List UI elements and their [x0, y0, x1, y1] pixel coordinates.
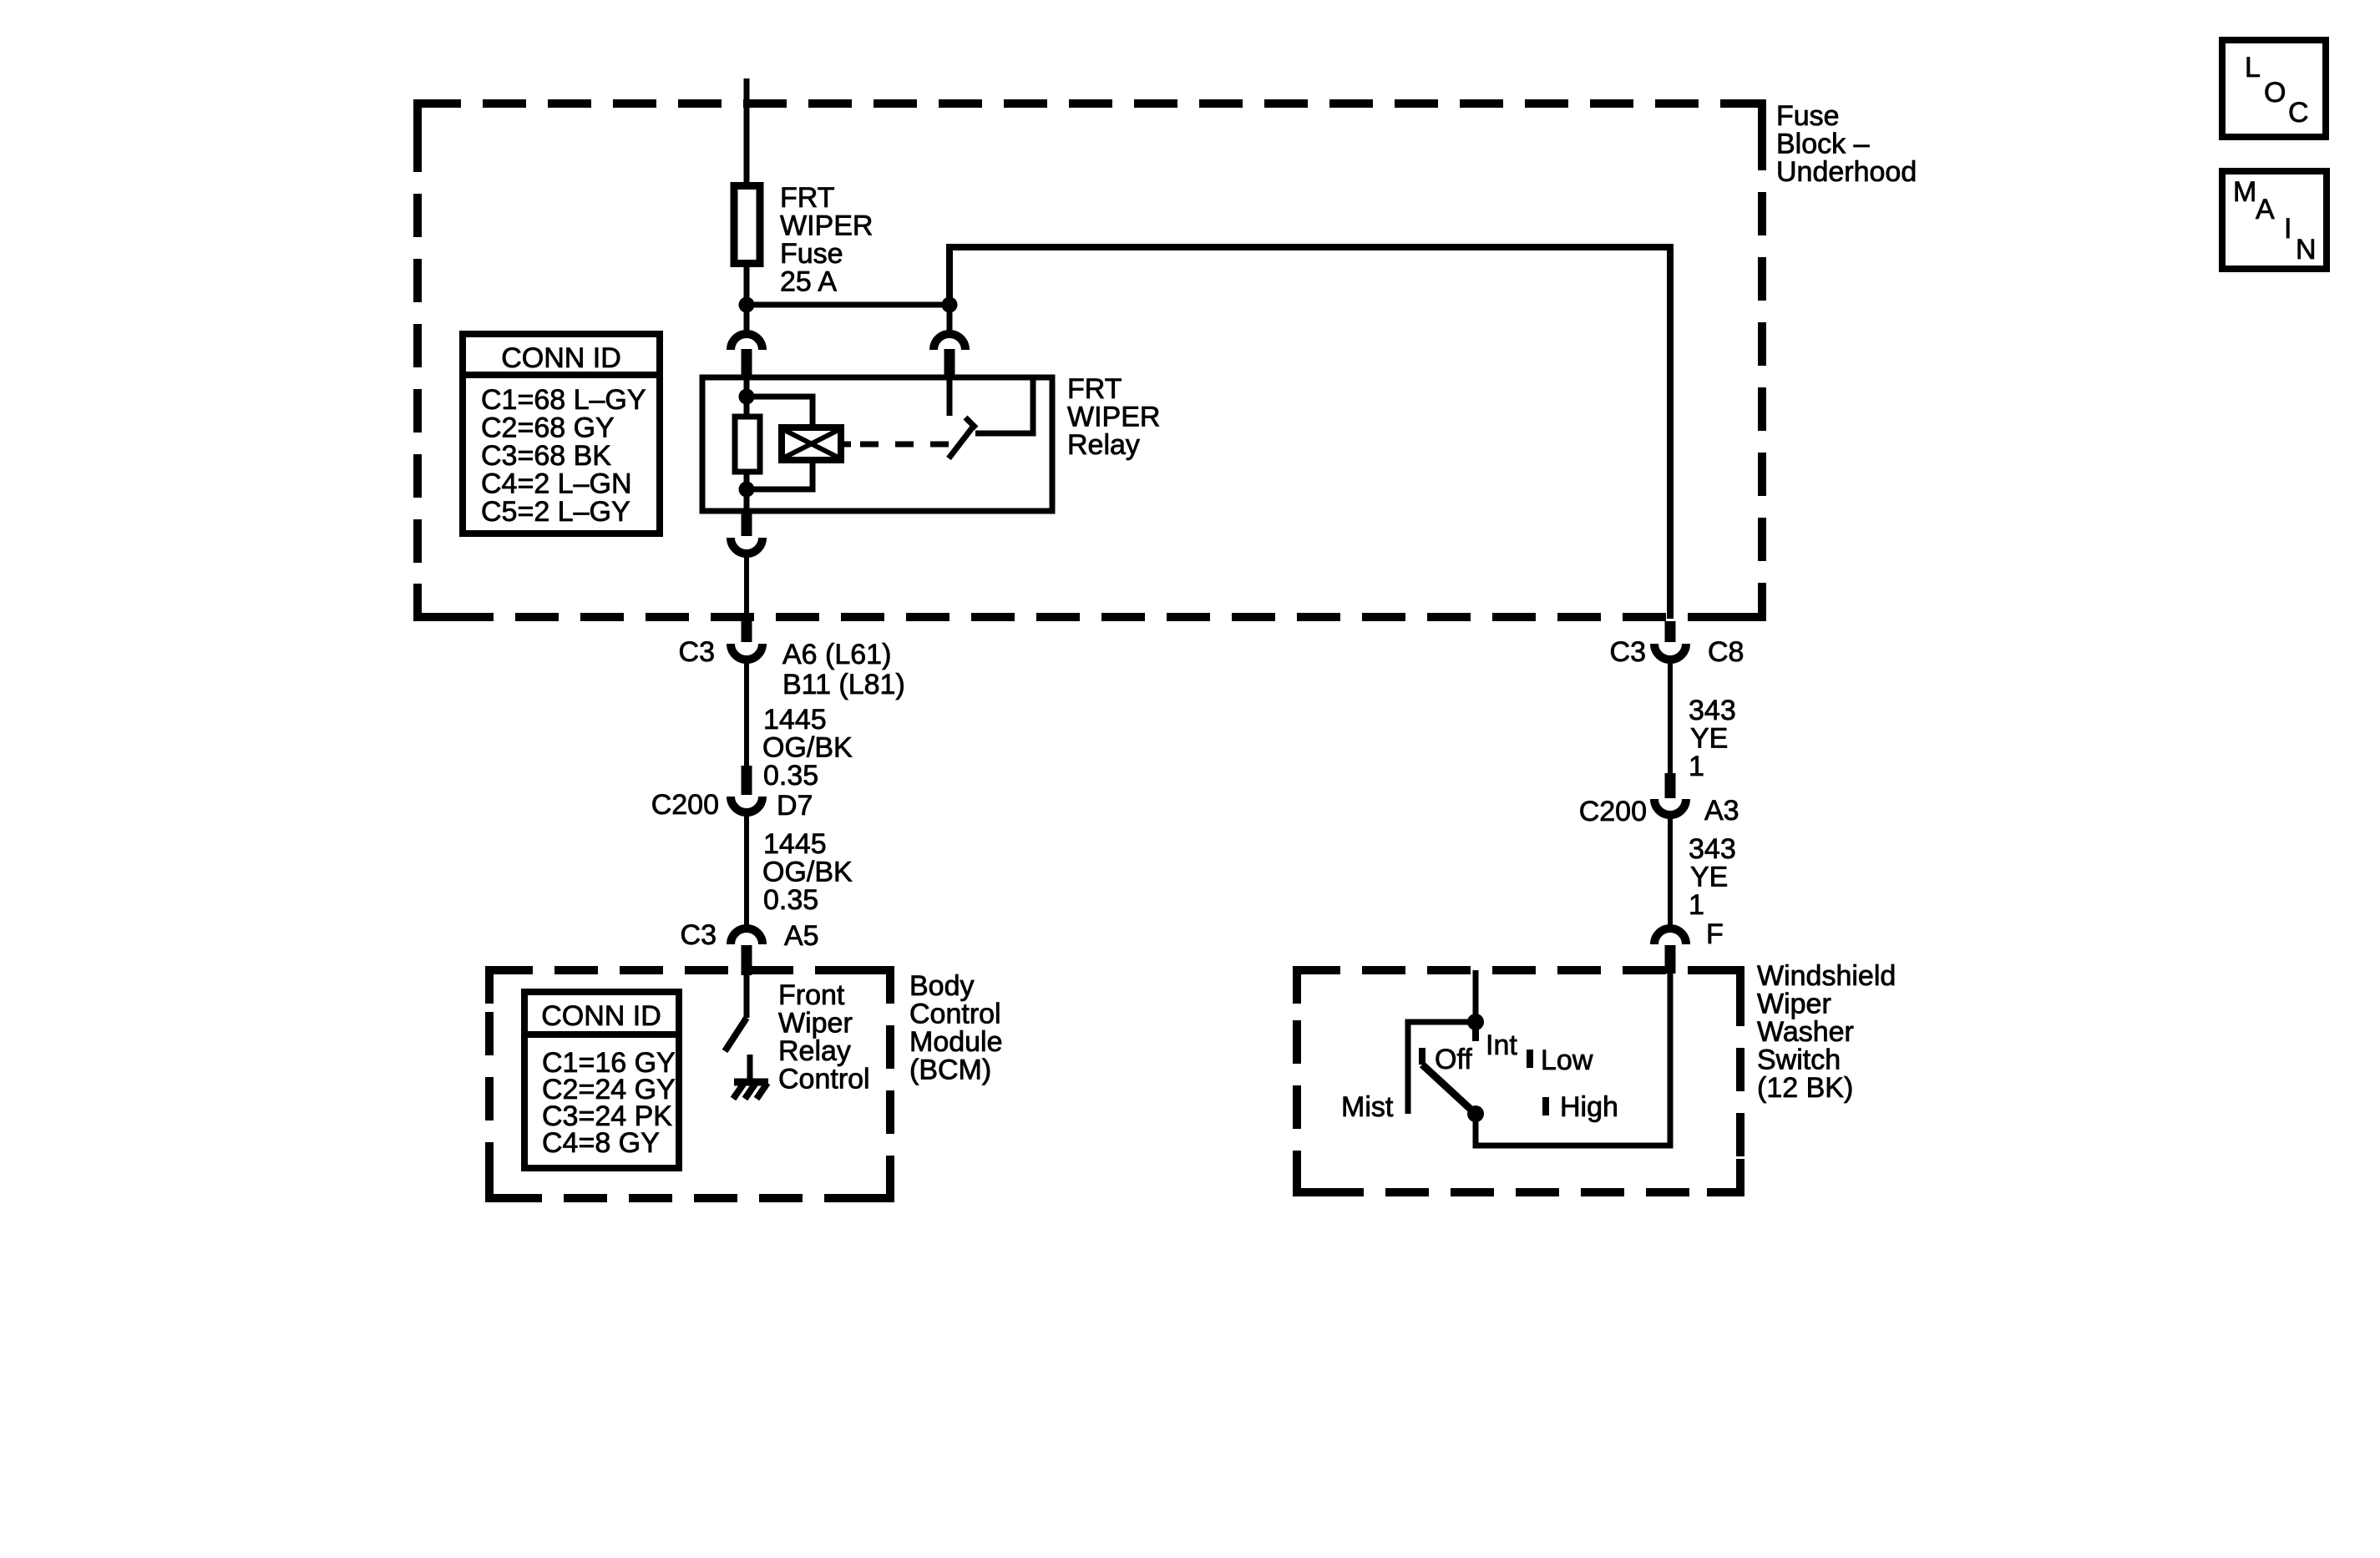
svg-text:1: 1: [1689, 751, 1704, 782]
wire: coil branch top: [747, 397, 813, 427]
switch blade inside BCM (relay control driver): [725, 1018, 747, 1051]
svg-text:C2=68 GY: C2=68 GY: [481, 412, 615, 444]
wire: C8 to C200 A3: [1668, 662, 1673, 774]
wire: junction down to relay coil connector: [744, 305, 750, 331]
node: relay top internal junction: [739, 389, 755, 405]
label: Fuse Block - Underhood: [1776, 100, 1917, 188]
connector C200 / A3 (pin + cup): [1654, 773, 1686, 815]
svg-text:Relay: Relay: [1067, 429, 1140, 461]
resistor: relay suppression resistor: [735, 417, 760, 472]
wire: relay output down to C3: [744, 556, 749, 622]
wire: ground leg inside BCM: [747, 1055, 753, 1082]
svg-text:I: I: [2284, 213, 2291, 245]
svg-text:Mist: Mist: [1341, 1091, 1394, 1123]
svg-text:C4=2 L–GN: C4=2 L–GN: [481, 468, 632, 500]
svg-text:FRT: FRT: [1067, 373, 1122, 405]
svg-text:(BCM): (BCM): [909, 1055, 991, 1086]
box: MAIN tag: [2222, 171, 2327, 269]
connector C3 / A5 at BCM (dome + pin): [731, 928, 762, 975]
svg-text:Underhood: Underhood: [1776, 156, 1917, 188]
actuator dashed link coil to switch: [841, 442, 949, 448]
label: Windshield Wiper Washer Switch (12 BK): [1757, 960, 1896, 1104]
contact tick: High: [1542, 1097, 1549, 1115]
connector F at wiper switch (dome + pin): [1654, 928, 1686, 974]
connector C3 / A6 (pin + cup): [731, 621, 762, 660]
svg-text:Windshield: Windshield: [1757, 960, 1896, 992]
wire: A5 pin down inside BCM: [744, 974, 750, 1018]
connector C3 / C8 (pin + cup) right branch: [1654, 621, 1686, 660]
connector: relay switch pin (dome + pin): [934, 334, 965, 379]
label: wire 343 YE 1 (lower): [1689, 833, 1736, 921]
svg-text:B11 (L81): B11 (L81): [782, 669, 905, 701]
svg-text:A5: A5: [784, 920, 819, 952]
svg-text:Control: Control: [778, 1064, 870, 1095]
svg-text:343: 343: [1689, 695, 1736, 726]
coil: relay coil (boxed X): [782, 427, 841, 460]
svg-text:C3: C3: [681, 919, 717, 951]
wire: A3 to switch F: [1668, 818, 1673, 925]
dashed box: Fuse Block - Underhood: [418, 104, 1762, 617]
svg-text:Switch: Switch: [1757, 1045, 1841, 1076]
svg-text:Wiper: Wiper: [1757, 989, 1831, 1020]
svg-text:(12 BK): (12 BK): [1757, 1072, 1853, 1104]
switch blade (wiper): [1422, 1065, 1476, 1114]
relay box FRT WIPER Relay: [702, 377, 1052, 511]
svg-text:Washer: Washer: [1757, 1016, 1854, 1048]
svg-text:D7: D7: [777, 790, 813, 822]
node: relay bottom internal junction: [739, 482, 755, 498]
svg-text:C3=68 BK: C3=68 BK: [481, 440, 611, 472]
svg-text:CONN ID: CONN ID: [541, 1000, 661, 1032]
svg-text:High: High: [1560, 1091, 1618, 1123]
wire: fuse output to junction: [744, 267, 750, 305]
dashed box: Windshield Wiper Washer Switch: [1297, 970, 1740, 1192]
wire: junction bus to relay switch feed: [747, 302, 949, 308]
label: wire 1445 OG/BK 0.35 (lower): [762, 828, 853, 916]
node: Int junction: [1467, 1014, 1484, 1030]
wire: coil branch bottom: [747, 460, 813, 489]
svg-text:C4=8 GY: C4=8 GY: [542, 1127, 660, 1159]
connector: relay output (pin + cup): [731, 511, 762, 554]
svg-text:Front: Front: [778, 979, 845, 1011]
label: Body Control Module (BCM): [909, 970, 1003, 1086]
wire: Mist leg: [1408, 1022, 1476, 1114]
svg-text:OG/BK: OG/BK: [762, 857, 853, 888]
svg-text:C5=2 L–GY: C5=2 L–GY: [481, 496, 630, 528]
label: FRT WIPER Fuse 25 A: [780, 182, 873, 298]
svg-text:OG/BK: OG/BK: [762, 732, 853, 764]
corner marks: Wiper Switch box: [1297, 970, 1740, 1192]
label: wire 343 YE 1: [1689, 695, 1736, 782]
svg-text:O: O: [2264, 77, 2286, 109]
wire: relay coil feed inside relay: [744, 377, 750, 417]
connector C200 / D7 (pin + cup): [731, 766, 762, 812]
svg-text:Module: Module: [909, 1026, 1003, 1058]
contact tick: Low: [1527, 1050, 1533, 1068]
svg-text:Block –: Block –: [1776, 129, 1870, 160]
label: Front Wiper Relay Control: [778, 979, 870, 1095]
svg-text:A: A: [2256, 194, 2275, 225]
svg-text:M: M: [2233, 176, 2256, 208]
svg-text:CONN ID: CONN ID: [501, 342, 621, 374]
dashed box: Body Control Module: [489, 970, 890, 1198]
wire: junction 2 down to relay switch connector: [947, 305, 953, 331]
svg-text:25 A: 25 A: [780, 266, 837, 298]
node: junction at relay switch feed: [942, 297, 958, 313]
contact tick: Int: [1472, 1022, 1479, 1041]
label: FRT WIPER Relay: [1067, 373, 1160, 461]
wire: C3 to C200: [744, 662, 749, 766]
table: Fuse block CONN ID: [463, 334, 660, 534]
wire: relay switch output L: [975, 380, 1033, 433]
wire: resistor bottom to relay exit: [744, 472, 750, 511]
svg-text:Body: Body: [909, 970, 975, 1002]
box: LOC tag: [2222, 40, 2326, 137]
svg-text:WIPER: WIPER: [1067, 402, 1160, 433]
svg-text:Off: Off: [1435, 1044, 1472, 1075]
svg-text:343: 343: [1689, 833, 1736, 865]
node: junction below fuse: [739, 297, 755, 313]
svg-text:YE: YE: [1690, 862, 1728, 893]
wire: C200 to BCM A5: [744, 815, 749, 925]
wire: battery feed above fuse: [744, 78, 750, 182]
svg-text:Int: Int: [1486, 1029, 1517, 1061]
svg-text:A6 (L61): A6 (L61): [782, 639, 891, 670]
wire: Int node stub from border: [1473, 970, 1479, 1022]
svg-text:Wiper: Wiper: [778, 1008, 853, 1040]
svg-text:FRT: FRT: [780, 182, 834, 214]
svg-text:F: F: [1706, 918, 1724, 950]
svg-text:C3: C3: [679, 636, 715, 668]
node: switch pivot: [1467, 1105, 1484, 1122]
svg-text:N: N: [2296, 234, 2317, 266]
svg-text:C200: C200: [651, 789, 719, 821]
svg-text:C8: C8: [1708, 636, 1744, 668]
svg-text:Control: Control: [909, 999, 1001, 1030]
svg-text:C: C: [2288, 97, 2309, 129]
svg-text:1445: 1445: [763, 828, 827, 860]
svg-text:1445: 1445: [763, 704, 827, 736]
label: wire 1445 OG/BK 0.35: [762, 704, 853, 792]
svg-text:C1=68 L–GY: C1=68 L–GY: [481, 384, 646, 416]
connector: relay coil pin (dome + pin): [731, 334, 762, 379]
wire: F feed inside switch down and across bottom: [1476, 974, 1670, 1146]
svg-text:0.35: 0.35: [763, 760, 818, 792]
wire: riser and top run over to C8 drop: [949, 247, 1670, 619]
svg-text:L: L: [2245, 52, 2261, 83]
svg-text:Fuse: Fuse: [1776, 100, 1840, 132]
svg-text:0.35: 0.35: [763, 884, 818, 916]
svg-text:YE: YE: [1690, 723, 1728, 755]
corner marks: Fuse Block box: [418, 104, 1762, 617]
fuse FRT WIPER Fuse 25 A: [734, 186, 760, 264]
svg-text:Low: Low: [1541, 1045, 1593, 1076]
corner marks: BCM box: [489, 970, 890, 1198]
ground: chassis ground symbol: [733, 1082, 768, 1099]
svg-text:Relay: Relay: [778, 1035, 851, 1067]
table: BCM CONN ID: [524, 992, 679, 1168]
svg-text:1: 1: [1689, 889, 1704, 921]
svg-text:WIPER: WIPER: [780, 210, 873, 242]
switch fixed contact inside relay: [947, 377, 953, 416]
switch blade inside relay: [949, 417, 976, 458]
svg-text:Fuse: Fuse: [780, 238, 843, 270]
label: A6 (L61) / B11 (L81): [782, 639, 905, 701]
svg-text:A3: A3: [1704, 795, 1739, 827]
contact tick: Off: [1419, 1048, 1425, 1065]
svg-text:C3: C3: [1610, 636, 1646, 668]
svg-text:C200: C200: [1579, 796, 1647, 827]
